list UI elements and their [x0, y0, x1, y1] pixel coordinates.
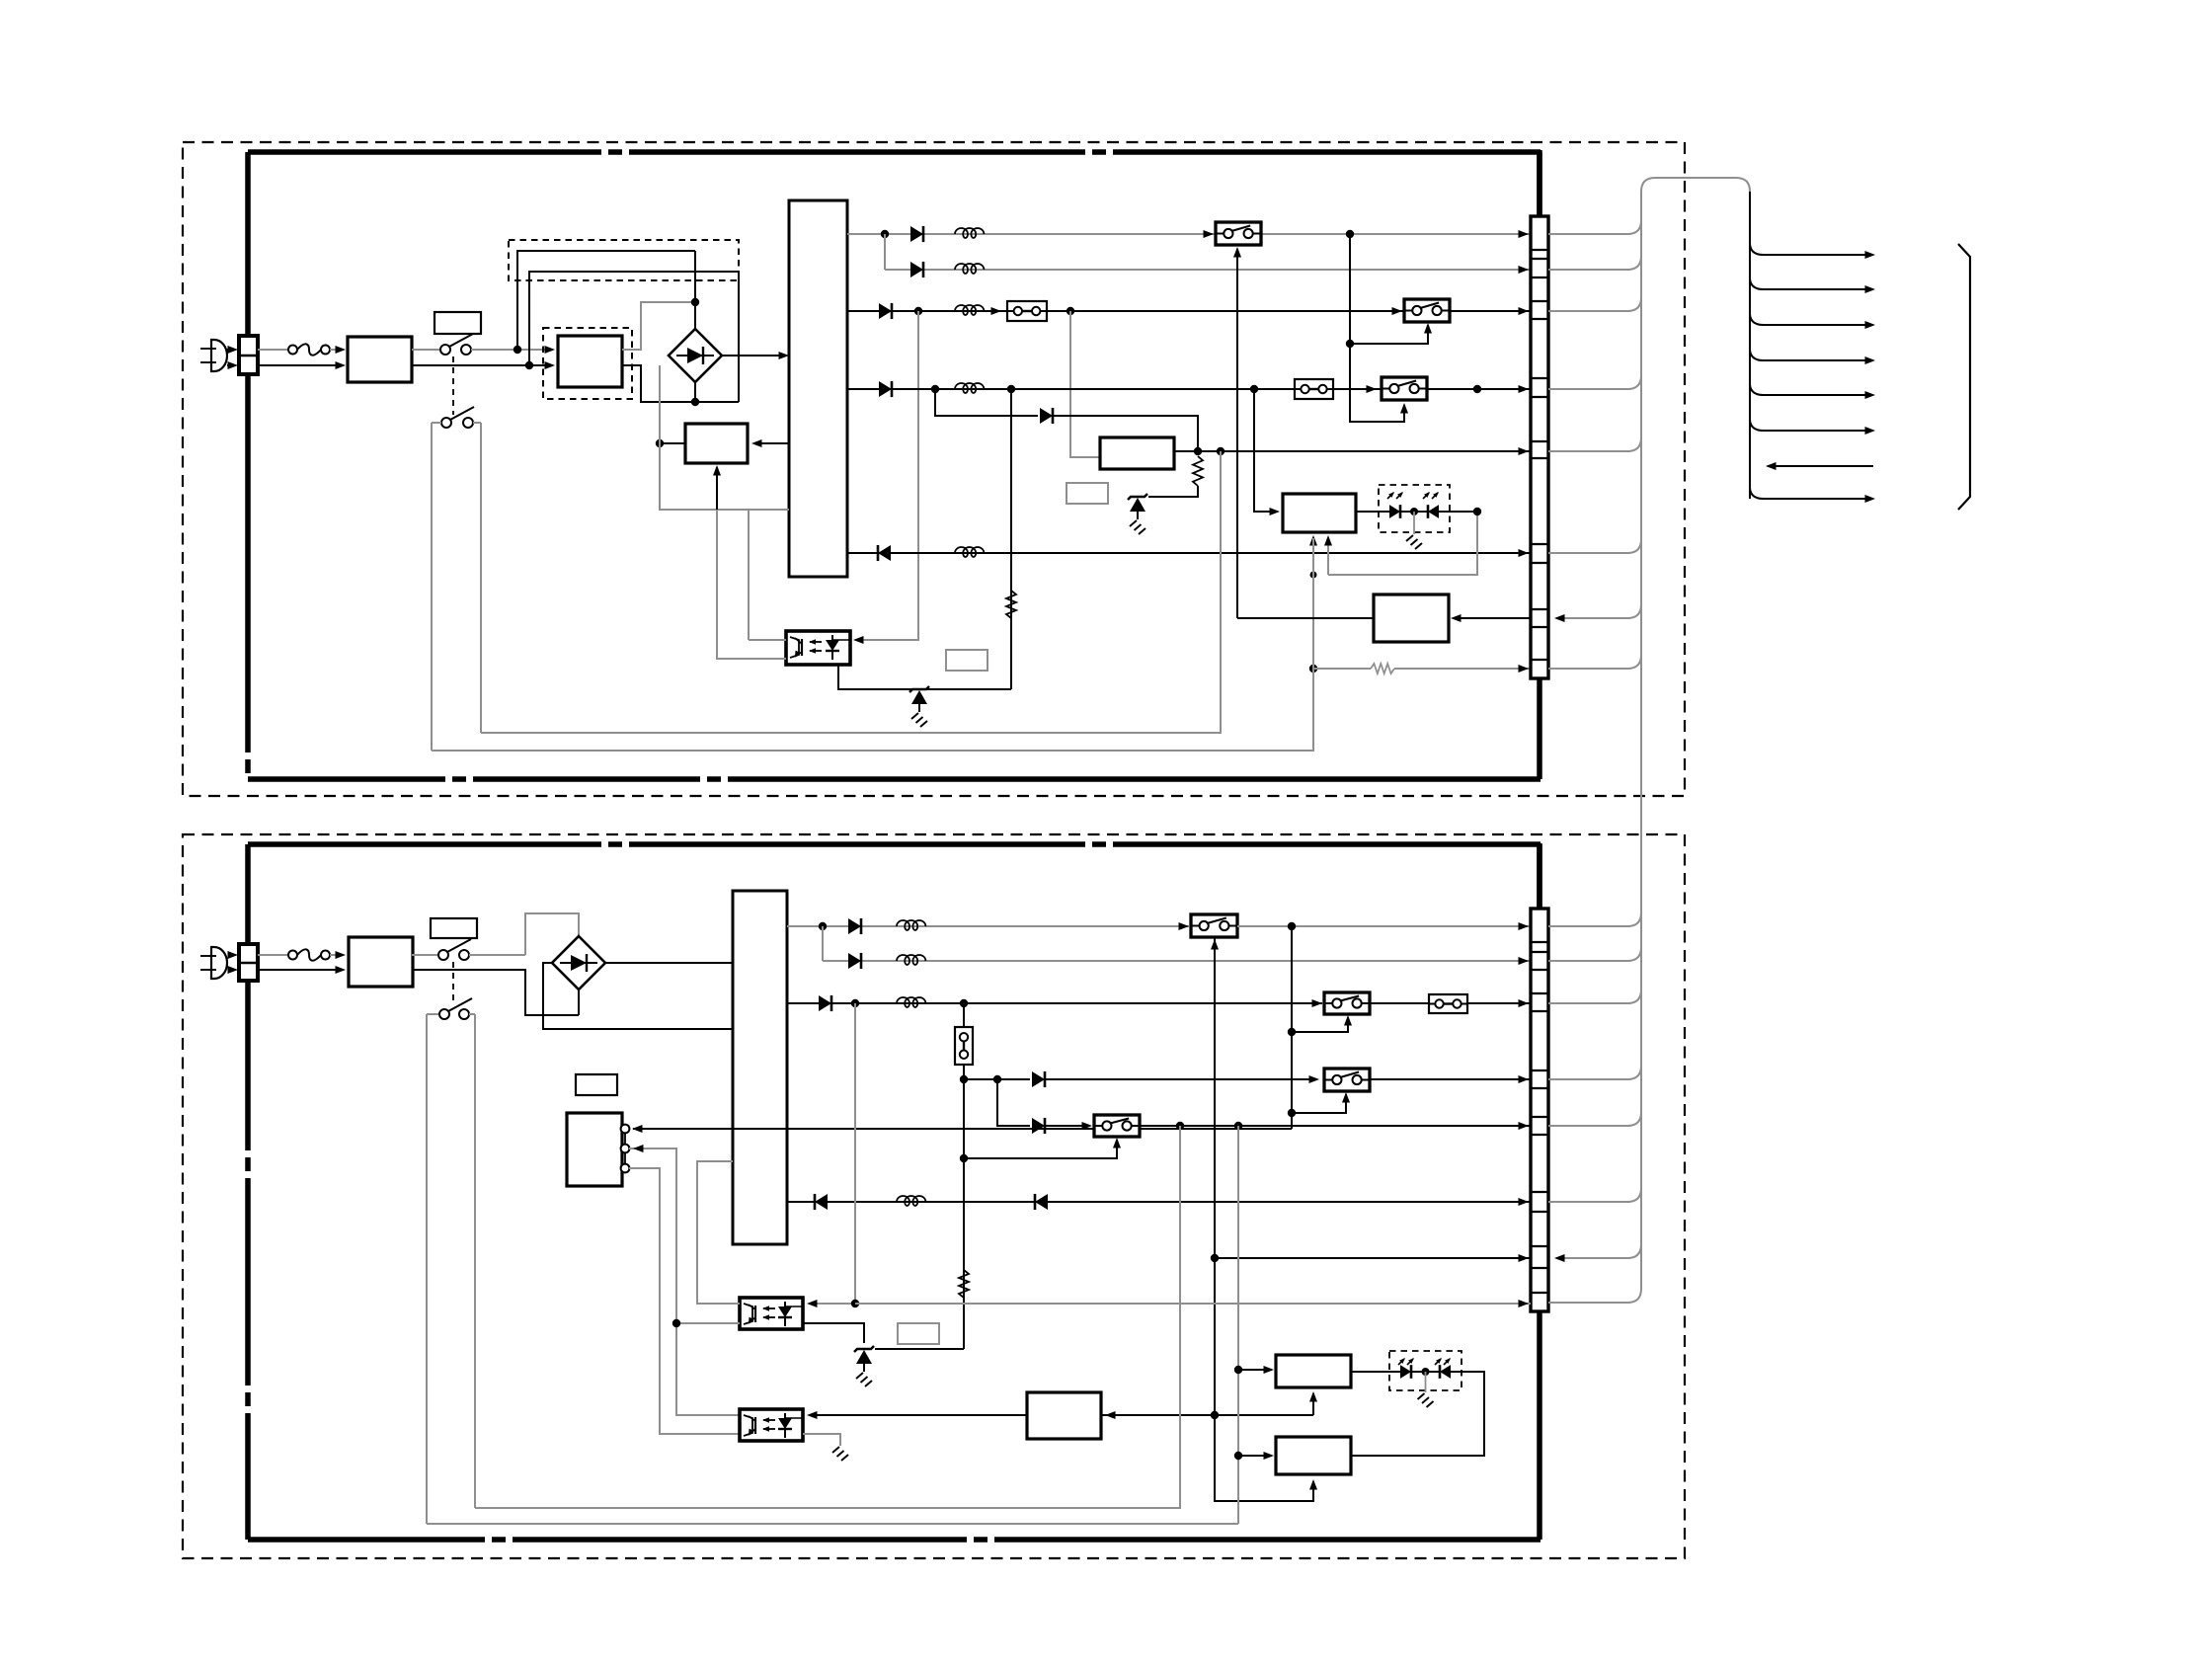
bus top corner — [1641, 178, 1750, 192]
bottom unit inner chassis border left — [245, 844, 251, 1540]
wire loop lower — [529, 272, 739, 402]
relay RY3 — [1382, 377, 1427, 400]
switch S2 return lower — [432, 669, 1313, 751]
wire degauss to bridge top — [622, 302, 695, 350]
bottom unit inner chassis border top — [248, 841, 1540, 847]
wire bridge bottom vertex — [694, 382, 696, 402]
wire opto left bottom to start-reg — [717, 510, 786, 659]
wire opto supply drop — [748, 510, 750, 640]
output row3 — [847, 310, 1531, 312]
relay RY6 — [1324, 1069, 1370, 1091]
branch arrows to other units — [1750, 243, 1869, 255]
node start-reg input — [656, 439, 664, 447]
degauss block — [558, 336, 622, 387]
control riser to blocks — [1237, 1126, 1239, 1524]
wire row4 to protection — [1254, 389, 1276, 512]
relay riser return upper — [475, 1126, 1180, 1508]
harness bracket — [1958, 244, 1970, 510]
diode D14 — [879, 381, 892, 397]
wire loop upper — [517, 251, 695, 350]
diode D22 — [848, 953, 861, 969]
output row5 minus — [847, 552, 1531, 554]
wire neutral row — [258, 364, 341, 366]
output row2 — [884, 234, 886, 270]
relay RY4 control riser — [1215, 937, 1313, 1501]
top unit outer dashed boundary — [183, 142, 1685, 796]
LED indicator pair — [1379, 485, 1450, 532]
bus vertical — [1640, 192, 1642, 1244]
top unit inner chassis border right — [1537, 152, 1542, 779]
wire feedback left rail — [660, 365, 789, 510]
relay driver block — [567, 1113, 622, 1186]
feedback resistor row — [1309, 665, 1317, 673]
label box — [576, 1074, 617, 1095]
relay RY1 — [1204, 230, 1215, 238]
wire opto left top — [749, 639, 786, 641]
wire pin1 control — [633, 1128, 1292, 1130]
fuse holder block — [239, 336, 258, 374]
error amp block — [1027, 1392, 1101, 1439]
protection bottom feeds — [1328, 512, 1477, 575]
bridge bottom vertex wire — [578, 990, 580, 1015]
jumper J2 — [1295, 379, 1333, 399]
wire bridge to converter — [722, 355, 783, 356]
line filter block FL1 — [348, 337, 412, 382]
output row4 — [847, 388, 1531, 390]
output row1 +B — [847, 233, 1531, 235]
inductor L23 — [897, 997, 925, 1007]
wire bridge top vertex — [694, 302, 696, 329]
zener ZD3 — [854, 1346, 874, 1352]
inductor L22 — [897, 955, 925, 965]
PC2 left bottom wire — [676, 1322, 740, 1324]
feedback row to connector — [851, 1300, 859, 1307]
output row1 — [787, 925, 1189, 927]
chassis stub top — [1537, 150, 1542, 216]
wire bridge to converter — [605, 962, 781, 964]
inductor L15 — [955, 547, 984, 557]
neutral to bridge — [412, 970, 579, 1015]
standby row to connector — [1215, 1257, 1531, 1259]
diode D26 — [815, 1194, 828, 1210]
main converter block IC1 — [789, 200, 847, 577]
jumper J1 — [1007, 301, 1047, 321]
diode D25 — [1032, 1118, 1045, 1134]
wire to degauss — [517, 349, 550, 351]
label box — [434, 312, 481, 334]
timer block A — [1276, 1355, 1351, 1387]
power switch S3 — [412, 954, 439, 956]
noise filter dashed box — [509, 240, 739, 280]
fuse F2 — [258, 954, 288, 956]
relay RY7 — [1094, 1115, 1140, 1137]
label box — [431, 918, 477, 938]
photocoupler PC2 — [740, 1298, 803, 1329]
bridge left vertex wire — [543, 963, 733, 1029]
connector CN2 — [1531, 909, 1548, 1311]
LED indicator pair — [1389, 1351, 1461, 1390]
wire start-reg bottom control — [716, 467, 718, 510]
inductor L12 — [955, 264, 984, 274]
degauss switch S4 — [439, 1009, 449, 1019]
bus wire into standby row — [1558, 1244, 1641, 1258]
switch link dashed — [452, 356, 454, 415]
zener ZD1 — [1128, 494, 1147, 500]
bus wire into connector row — [1558, 604, 1641, 618]
diode D24 — [1032, 1071, 1045, 1087]
diode D11 — [910, 226, 923, 242]
relay RY4 — [1191, 914, 1237, 937]
bridge rectifier D2 — [552, 936, 605, 990]
wire S2 right leg down — [480, 423, 482, 733]
label box — [898, 1323, 939, 1344]
neutral wire to degauss — [412, 364, 550, 366]
wire node to error amp — [1101, 1414, 1215, 1416]
diode D12 — [910, 262, 923, 277]
bottom unit inner chassis border right — [1537, 844, 1542, 1540]
sense fuse — [955, 1027, 973, 1065]
bottom unit inner chassis border bottom — [248, 1537, 1540, 1543]
wire pin2 — [629, 1148, 740, 1415]
wire row3 to regulator — [1070, 311, 1100, 457]
branch diodes — [993, 1075, 1001, 1083]
bridge rectifier D1 — [669, 329, 722, 382]
wire protection to LED — [1356, 511, 1379, 513]
main converter block IC3 — [733, 891, 787, 1244]
connector CN1 — [1531, 216, 1548, 678]
branch to lower diode — [997, 1079, 1030, 1126]
wire live row with fuse F1 — [258, 349, 288, 351]
fuse holder block — [239, 944, 258, 981]
diode D23 — [819, 995, 831, 1011]
top unit inner chassis border left — [245, 152, 251, 779]
wire pin3 — [629, 1168, 740, 1434]
wire S2 left leg down — [431, 423, 433, 751]
inductor L24 — [897, 1196, 925, 1206]
diode D13 — [879, 303, 892, 319]
wire LED loop to timerB — [1351, 1372, 1484, 1456]
inductor L14 — [955, 383, 984, 393]
label box — [946, 650, 987, 671]
photocoupler PC1 — [786, 631, 850, 665]
wire over bridge — [525, 913, 579, 955]
degauss switch S2 — [441, 418, 451, 428]
standby control block — [1374, 594, 1449, 642]
harness bus right — [1548, 220, 1641, 234]
AC plug P1 — [211, 340, 227, 371]
switch S2 return upper — [481, 451, 1221, 733]
resistor R12 — [1006, 591, 1016, 618]
wire row3 to opto — [857, 311, 918, 640]
line filter FL2 — [349, 937, 413, 987]
local regulator IC2 — [1100, 437, 1174, 469]
inductor L21 — [897, 920, 925, 930]
wire plug to fuse-holder — [228, 346, 239, 354]
output row minus — [787, 1201, 1531, 1203]
S4 left leg — [426, 1014, 428, 1524]
relay RY5 — [1324, 992, 1370, 1014]
start regulator block — [685, 424, 748, 463]
wire connector to standby block — [1455, 617, 1531, 619]
diode D15 — [1040, 408, 1053, 424]
bottom unit outer dashed boundary — [183, 834, 1685, 1558]
switch link dashed — [452, 962, 454, 1003]
diode D16 — [878, 545, 891, 561]
sense divider — [1010, 389, 1012, 689]
timer block B — [1276, 1437, 1351, 1474]
diode D27 — [1035, 1194, 1048, 1210]
PC3 right bottom ground — [803, 1434, 840, 1446]
distribution trunk — [1749, 192, 1751, 499]
wire opto led cathode — [838, 665, 1011, 689]
relay RY3 control — [1350, 234, 1404, 422]
relay RY2 — [1392, 307, 1403, 315]
bus tail — [1640, 1244, 1642, 1289]
RY7 control — [964, 1140, 1117, 1158]
PC2 left top wire — [697, 1161, 740, 1304]
driver pins — [621, 1125, 630, 1134]
chassis stub top — [1537, 843, 1542, 909]
output row2 — [822, 926, 824, 961]
wire degauss low to bridge bottom — [622, 365, 695, 402]
relay riser return lower — [427, 1523, 1238, 1525]
power switch S1 — [412, 349, 439, 351]
wire protection bottom to feedback — [1312, 538, 1314, 751]
output row3 — [787, 1002, 1322, 1004]
wire LED to row4 node — [1450, 511, 1477, 513]
protection block — [1283, 494, 1356, 532]
neutral row — [258, 969, 341, 971]
relay RY5 RY6 control riser — [1291, 926, 1293, 1129]
wire error amp feed to protection — [1312, 1393, 1314, 1415]
inductor L13 — [955, 305, 984, 315]
S4 right leg — [474, 1014, 476, 1508]
wire timerA to LED — [1351, 1371, 1389, 1373]
bus joins bottom connector — [1548, 912, 1641, 926]
zener ZD2 — [909, 686, 929, 692]
wire converter to start regulator — [755, 442, 789, 444]
sense resistor R21 — [959, 1270, 969, 1298]
PC2 right bottom wire — [803, 1323, 864, 1343]
PC3 right top wire — [811, 1414, 1027, 1416]
diode D21 — [848, 918, 861, 934]
AC plug P2 — [211, 947, 227, 979]
bleeder resistor R11 — [1193, 456, 1203, 486]
label box — [1066, 483, 1108, 504]
PC2 right top wire — [854, 1003, 856, 1304]
inductor L11 — [955, 228, 984, 238]
relay RY2 control — [1346, 340, 1354, 348]
zener wire — [875, 1348, 964, 1350]
sub diode branch — [935, 389, 1038, 416]
relay RY1 control riser — [1236, 249, 1238, 618]
top unit inner chassis border top — [248, 149, 1540, 155]
photocoupler PC3 — [740, 1409, 803, 1441]
top unit inner chassis border bottom — [248, 776, 1540, 782]
degauss coil dashed box — [543, 328, 632, 399]
jumper J3 — [1429, 994, 1467, 1013]
regulated output row — [1174, 450, 1531, 452]
